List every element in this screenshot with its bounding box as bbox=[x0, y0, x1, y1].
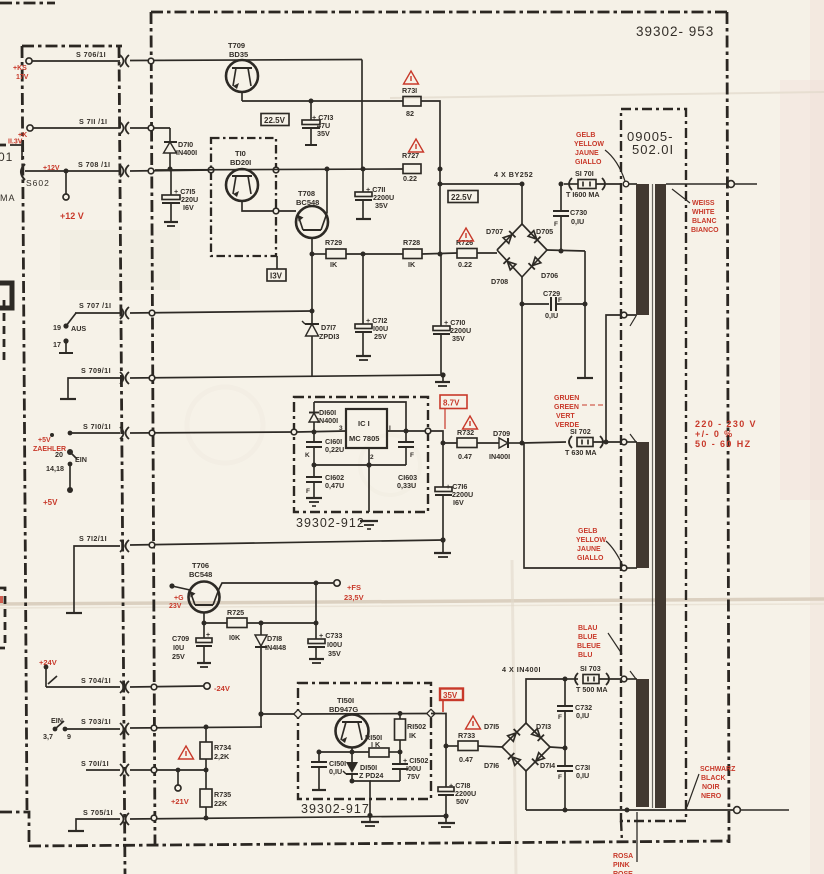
resistor R735 bbox=[200, 770, 231, 818]
capacitor C729 bbox=[522, 289, 585, 320]
svg-text:F: F bbox=[558, 714, 562, 721]
wire S712/11 bbox=[74, 546, 120, 613]
svg-text:3: 3 bbox=[339, 425, 343, 432]
svg-text:502.0I: 502.0I bbox=[632, 142, 674, 157]
capacitor C716 bbox=[435, 443, 473, 540]
svg-text:S 7I0/1I: S 7I0/1I bbox=[83, 422, 111, 431]
svg-text:25V: 25V bbox=[172, 652, 185, 661]
node R734 bottom bbox=[204, 768, 209, 773]
node C729 left bbox=[520, 302, 525, 307]
wire T708 collector bbox=[326, 169, 328, 213]
node ring T10 box right emitter bbox=[273, 208, 279, 214]
svg-text:D7I4: D7I4 bbox=[540, 761, 555, 770]
svg-text:TI50I: TI50I bbox=[337, 696, 354, 705]
connector S704/11 bbox=[120, 681, 129, 693]
svg-text:25V: 25V bbox=[374, 332, 387, 341]
red fragment left edge bbox=[0, 596, 3, 603]
connector S705/11 bbox=[120, 813, 129, 825]
wire primary bottom outside bbox=[740, 809, 789, 811]
svg-text:4 X BY252: 4 X BY252 bbox=[494, 170, 533, 179]
svg-text:GELB: GELB bbox=[578, 528, 597, 535]
node T708 collector rail bbox=[325, 167, 330, 172]
svg-text:I6V: I6V bbox=[453, 498, 464, 507]
svg-text:IK: IK bbox=[330, 260, 338, 269]
wire S707/11 bbox=[75, 312, 120, 314]
svg-text:R733: R733 bbox=[458, 731, 475, 740]
svg-text:D7I8: D7I8 bbox=[267, 634, 282, 643]
ground bar S705 bbox=[68, 830, 84, 832]
wire T709 collector bbox=[361, 60, 363, 170]
voltage box 13V bbox=[267, 256, 286, 281]
regulator box 39302-917 bbox=[298, 683, 431, 799]
wire R733 row bbox=[446, 745, 458, 747]
svg-text:S 708 /1I: S 708 /1I bbox=[78, 160, 110, 169]
wire emitter rail 22.5V bbox=[242, 100, 403, 102]
voltage box 8.7V red bbox=[440, 395, 467, 429]
resistor R728 bbox=[403, 238, 422, 269]
pointer ROSA wire bbox=[636, 812, 638, 862]
svg-text:F: F bbox=[558, 297, 562, 304]
wire 585 vertical bbox=[584, 251, 586, 377]
voltage box 35V red bbox=[440, 689, 463, 713]
svg-text:D7I6: D7I6 bbox=[484, 761, 499, 770]
svg-text:0.22: 0.22 bbox=[403, 174, 417, 183]
contact 14,18 bbox=[68, 462, 73, 467]
wire FS to row bbox=[315, 583, 317, 623]
wire emitter row bbox=[319, 751, 369, 753]
diode D717 zener bbox=[302, 254, 339, 377]
fuse Si703 bbox=[565, 664, 637, 694]
svg-text:I0U: I0U bbox=[173, 643, 184, 652]
switch EIN arm bbox=[70, 452, 77, 459]
warning triangle R726 bbox=[459, 228, 474, 241]
node C731 bottom bbox=[563, 808, 568, 813]
module 39302-953 left border bbox=[151, 12, 155, 845]
node ring Si701 box edge bbox=[623, 181, 629, 187]
wire R725 right bbox=[247, 622, 316, 624]
terminal S711 bbox=[27, 125, 33, 131]
svg-text:BLACK: BLACK bbox=[701, 775, 726, 782]
svg-text:19: 19 bbox=[53, 323, 61, 332]
connector S701/11 bbox=[120, 764, 129, 776]
wire bus 440 down bbox=[439, 169, 441, 254]
svg-text:23V: 23V bbox=[169, 603, 182, 610]
svg-text:BD35: BD35 bbox=[229, 50, 248, 59]
svg-text:F: F bbox=[554, 221, 558, 228]
wire S703/11 bbox=[65, 728, 120, 730]
fuse Si702 bbox=[565, 427, 637, 457]
node C711 rail bbox=[361, 167, 366, 172]
regulator box 39302-912 bbox=[294, 397, 428, 512]
svg-text:EIN: EIN bbox=[75, 455, 87, 464]
switch S704 arm bbox=[45, 667, 47, 687]
pointer GELB top bbox=[605, 150, 625, 181]
node C729 right bbox=[583, 302, 588, 307]
svg-text:0,IU: 0,IU bbox=[545, 311, 558, 320]
svg-text:4 X IN400I: 4 X IN400I bbox=[502, 665, 541, 674]
svg-text:0,22U: 0,22U bbox=[325, 445, 344, 454]
svg-text:+5V: +5V bbox=[38, 437, 51, 444]
diode D718 bbox=[255, 623, 286, 714]
svg-text:3,7: 3,7 bbox=[43, 732, 53, 741]
svg-text:ROSA: ROSA bbox=[613, 853, 633, 860]
wire S701/11 bbox=[86, 769, 120, 771]
svg-text:MA: MA bbox=[0, 193, 16, 203]
node bus row2 bbox=[438, 252, 443, 257]
svg-text:17V: 17V bbox=[16, 74, 29, 81]
node C718 top bbox=[444, 744, 449, 749]
svg-text:S 70I/1I: S 70I/1I bbox=[81, 759, 109, 768]
svg-text:GRUEN: GRUEN bbox=[554, 395, 579, 402]
contact +5V bbox=[50, 433, 54, 437]
ground below rail bbox=[361, 815, 379, 826]
transformer core line bbox=[652, 184, 654, 808]
pointer BLAU bbox=[608, 633, 622, 654]
svg-text:PINK: PINK bbox=[613, 862, 630, 869]
node bridge1 minus bbox=[520, 441, 525, 446]
node S708 junction bbox=[64, 169, 69, 174]
wire gnd rail in box bbox=[314, 464, 406, 466]
ground IC pin2 below box bbox=[360, 521, 378, 529]
svg-text:IN400I: IN400I bbox=[317, 416, 338, 425]
svg-text:BLEUE: BLEUE bbox=[577, 643, 601, 650]
wire stub +12V bbox=[65, 171, 67, 194]
svg-text:D705: D705 bbox=[536, 227, 553, 236]
capacitor C732 bbox=[557, 679, 592, 748]
capacitor C709 bbox=[172, 623, 212, 667]
pointer GELB mid bbox=[606, 541, 623, 566]
node C730 bottom bbox=[559, 249, 564, 254]
ground S712 bbox=[434, 540, 451, 557]
module 39302-953 right border bbox=[727, 12, 729, 843]
svg-text:0,IU: 0,IU bbox=[329, 767, 342, 776]
wire primary top outside bbox=[734, 183, 757, 185]
capacitor C713 bbox=[302, 101, 333, 145]
wire IC pin2 bbox=[368, 448, 370, 512]
node C732 top bbox=[563, 677, 568, 682]
wire T708 emitter bbox=[311, 238, 313, 254]
svg-text:YELLOW: YELLOW bbox=[574, 141, 604, 148]
capacitor C730 bbox=[553, 184, 587, 251]
left module right border bbox=[22, 46, 27, 812]
node gnd C1601 bbox=[312, 463, 317, 468]
node ring S704 border bbox=[151, 684, 157, 690]
svg-text:T I600 MA: T I600 MA bbox=[566, 190, 600, 199]
svg-text:35V: 35V bbox=[317, 129, 330, 138]
svg-text:C730: C730 bbox=[570, 208, 587, 217]
capacitor C1601 bbox=[305, 432, 344, 465]
capacitor C718 bbox=[438, 746, 476, 816]
svg-text:Z PD24: Z PD24 bbox=[359, 771, 383, 780]
arrow winding1 tap bbox=[630, 316, 636, 326]
node ring S709 border bbox=[149, 375, 155, 381]
wire GELB tap to winding bbox=[627, 567, 637, 569]
diode D709 bbox=[489, 429, 522, 461]
terminal +5V bbox=[67, 487, 73, 493]
svg-text:+FS: +FS bbox=[347, 583, 361, 592]
svg-text:SI 703: SI 703 bbox=[580, 664, 601, 673]
svg-text:35V: 35V bbox=[375, 201, 388, 210]
winding primary bbox=[655, 184, 666, 808]
bridge rectifier D713-D716 bbox=[484, 722, 555, 771]
leader 35V red bbox=[442, 700, 444, 712]
warning triangle R732 bbox=[463, 416, 478, 429]
wire S710/11 bbox=[70, 432, 120, 434]
svg-text:0.47: 0.47 bbox=[458, 452, 472, 461]
svg-text:S 7I2/1I: S 7I2/1I bbox=[79, 534, 107, 543]
connector S706/11 bbox=[120, 55, 129, 67]
node ring S706 border bbox=[148, 58, 154, 64]
node R734 top bbox=[204, 725, 209, 730]
svg-text:T706: T706 bbox=[192, 561, 209, 570]
node +21V junction bbox=[176, 768, 181, 773]
svg-text:D7I3: D7I3 bbox=[536, 722, 551, 731]
connector S711/11 bbox=[120, 122, 129, 134]
node C733 top bbox=[314, 621, 319, 626]
svg-text:I6V: I6V bbox=[183, 203, 194, 212]
resistor R729 bbox=[325, 238, 346, 269]
capacitor C710 bbox=[433, 254, 471, 375]
node emitter bbox=[202, 621, 207, 626]
svg-text:2,2K: 2,2K bbox=[214, 752, 230, 761]
wire T1501 emitter bbox=[351, 747, 353, 752]
voltage box 22.5V bbox=[261, 114, 289, 126]
node C1501 row bbox=[317, 750, 322, 755]
svg-text:SI 70I: SI 70I bbox=[575, 169, 594, 178]
svg-text:39302-917: 39302-917 bbox=[301, 802, 370, 816]
svg-text:S 709/1I: S 709/1I bbox=[81, 366, 111, 375]
contact 17 bbox=[63, 338, 68, 343]
diode D1601 bbox=[309, 402, 338, 432]
capacitor C711 bbox=[355, 169, 394, 219]
node T708 emitter bbox=[310, 252, 315, 257]
svg-text:IN400I: IN400I bbox=[176, 148, 197, 157]
svg-text:35V: 35V bbox=[452, 334, 465, 343]
svg-text:IC I: IC I bbox=[358, 419, 370, 428]
svg-text:+5V: +5V bbox=[43, 498, 58, 507]
node S712 end bbox=[440, 537, 445, 542]
connector S703/11 bbox=[120, 723, 129, 735]
pointer WEISS bbox=[672, 189, 690, 203]
svg-text:35V: 35V bbox=[443, 691, 458, 700]
svg-text:D708: D708 bbox=[491, 277, 508, 286]
svg-text:0.22: 0.22 bbox=[458, 260, 472, 269]
wire R726 to bridge bbox=[477, 252, 497, 254]
terminal +21V bbox=[175, 785, 181, 791]
resistor R1501 bbox=[365, 733, 389, 757]
leader 8.7V bbox=[444, 409, 446, 430]
svg-text:T709: T709 bbox=[228, 41, 245, 50]
wire S706/11 bbox=[32, 60, 120, 62]
svg-text:S 704/1I: S 704/1I bbox=[81, 676, 111, 685]
node ring T10 box right rail bbox=[273, 167, 279, 173]
svg-text:S602: S602 bbox=[26, 178, 50, 188]
svg-text:WHITE: WHITE bbox=[692, 209, 715, 216]
wire T706 base bbox=[172, 586, 190, 590]
node ring GELB box edge bbox=[621, 565, 627, 571]
svg-text:R725: R725 bbox=[227, 608, 244, 617]
svg-text:T708: T708 bbox=[298, 189, 315, 198]
node FS junction bbox=[314, 581, 319, 586]
node C713 bbox=[309, 99, 314, 104]
node C712 row bbox=[361, 252, 366, 257]
svg-text:IN400I: IN400I bbox=[489, 452, 510, 461]
node ring S711 border bbox=[148, 125, 154, 131]
pointer GRUEN bbox=[582, 404, 604, 406]
wire R1501 right bbox=[389, 751, 400, 753]
terminal -24V bbox=[204, 683, 210, 689]
wire R725 row bbox=[204, 622, 227, 624]
svg-text:8.7V: 8.7V bbox=[443, 399, 460, 408]
svg-text:+/- 0 %: +/- 0 % bbox=[695, 429, 734, 439]
switch AUS arm bbox=[66, 313, 76, 326]
svg-text:23,5V: 23,5V bbox=[344, 593, 364, 602]
capacitor C712 bbox=[355, 254, 388, 360]
connector column boundary bbox=[119, 46, 125, 874]
svg-text:GIALLO: GIALLO bbox=[575, 159, 602, 166]
wire S711/11 bbox=[33, 127, 120, 129]
svg-text:50V: 50V bbox=[456, 797, 469, 806]
node ring Si702 box edge bbox=[621, 439, 627, 445]
svg-text:GELB: GELB bbox=[576, 132, 595, 139]
svg-text:50 - 60 HZ: 50 - 60 HZ bbox=[695, 439, 752, 449]
wire bottom rail bbox=[526, 809, 733, 811]
svg-text:BD20I: BD20I bbox=[230, 158, 251, 167]
resistor R732 bbox=[457, 428, 477, 461]
svg-text:JAUNE: JAUNE bbox=[577, 546, 601, 553]
svg-text:RI502: RI502 bbox=[407, 722, 426, 731]
svg-text:GREEN: GREEN bbox=[554, 404, 579, 411]
wire base row y254 bbox=[312, 253, 326, 255]
node C716 top bbox=[441, 441, 446, 446]
connector S712/11 bbox=[120, 540, 129, 552]
svg-text:BC548: BC548 bbox=[296, 198, 319, 207]
fuse Si701 bbox=[564, 169, 637, 199]
svg-text:0,33U: 0,33U bbox=[397, 481, 416, 490]
node rail D1501 bbox=[367, 813, 372, 818]
wire R733 to bridge2 bbox=[478, 746, 502, 747]
wire bridge top bbox=[521, 184, 523, 224]
svg-text:AUS: AUS bbox=[71, 324, 86, 333]
transformer box 09005-502.01 bbox=[621, 109, 686, 821]
svg-text:S 705/1I: S 705/1I bbox=[83, 808, 113, 817]
svg-text:JAUNE: JAUNE bbox=[575, 150, 599, 157]
svg-text:35V: 35V bbox=[328, 649, 341, 658]
svg-text:39302- 953: 39302- 953 bbox=[636, 24, 714, 39]
node C731 top bbox=[563, 746, 568, 751]
svg-text:R726: R726 bbox=[456, 238, 473, 247]
resistor R726 bbox=[456, 238, 477, 269]
svg-text:R728: R728 bbox=[403, 238, 420, 247]
svg-text:0,IU: 0,IU bbox=[571, 217, 584, 226]
svg-text:NOIR: NOIR bbox=[702, 784, 720, 791]
svg-text:IK: IK bbox=[409, 731, 417, 740]
node diamond box edge bbox=[294, 710, 302, 718]
wire 184 rail to bridge bbox=[440, 183, 522, 185]
node D717 S707 bbox=[310, 309, 315, 314]
left module bottom corner bbox=[0, 812, 29, 846]
far-left module fragment upper bbox=[3, 300, 6, 360]
node ring S705 border bbox=[151, 815, 157, 821]
svg-text:22.5V: 22.5V bbox=[451, 193, 473, 202]
capacitor C731 bbox=[557, 748, 590, 810]
diode D1501 zener bbox=[343, 752, 383, 781]
svg-text:+G: +G bbox=[174, 595, 184, 602]
module bottom border bbox=[29, 841, 730, 846]
ground S709 C710 bbox=[435, 375, 450, 386]
svg-text:I3V: I3V bbox=[270, 272, 283, 281]
black connector fragment left edge bbox=[0, 283, 12, 308]
connector S707/11 bbox=[120, 307, 129, 319]
resistor R734 bbox=[200, 727, 231, 770]
svg-text:+12 V: +12 V bbox=[60, 211, 84, 221]
wire stub +21V bbox=[177, 770, 179, 785]
wire winding1 bottom tap bbox=[606, 315, 637, 442]
switch S703 contacts bbox=[53, 727, 58, 732]
svg-text:0,IU: 0,IU bbox=[576, 711, 589, 720]
node diamond box right bbox=[427, 709, 435, 717]
svg-text:C709: C709 bbox=[172, 634, 189, 643]
svg-text:39302-912: 39302-912 bbox=[296, 516, 365, 530]
capacitor C1502 bbox=[370, 752, 428, 781]
svg-text:I00U: I00U bbox=[327, 640, 342, 649]
node D710 rail bbox=[168, 167, 173, 172]
contact +24V bbox=[44, 665, 49, 670]
transistor T706 bbox=[189, 561, 220, 613]
svg-text:S 7II /1I: S 7II /1I bbox=[79, 117, 107, 126]
node ring S708 border bbox=[148, 168, 154, 174]
capacitor C1603 bbox=[397, 431, 417, 490]
wire bridge2 right bbox=[550, 747, 565, 748]
connector S602 arc bbox=[21, 164, 25, 180]
svg-text:BLANC: BLANC bbox=[692, 218, 717, 225]
resistor R733 bbox=[458, 731, 478, 764]
wire base to T1501 bbox=[301, 713, 430, 716]
wire T706 collector bbox=[219, 583, 333, 589]
svg-text:IN4I48: IN4I48 bbox=[265, 643, 286, 652]
svg-text:D709: D709 bbox=[493, 429, 510, 438]
wire GELB tap path bbox=[524, 443, 621, 568]
wire T706 emitter bbox=[203, 613, 205, 623]
warning triangle R733 bbox=[466, 716, 481, 729]
ground C718 bbox=[438, 816, 455, 827]
svg-text:22K: 22K bbox=[214, 799, 228, 808]
node ring winding1 bottom box edge bbox=[621, 312, 627, 318]
node IC output bbox=[404, 429, 409, 434]
svg-text:D707: D707 bbox=[486, 227, 503, 236]
resistor R1502 bbox=[395, 714, 427, 753]
wire +12V rail bbox=[155, 169, 403, 170]
wire D1601 bypass top bbox=[314, 402, 406, 431]
node ring S710 border bbox=[149, 430, 155, 436]
svg-text:+12V: +12V bbox=[43, 165, 60, 172]
svg-text:R73I: R73I bbox=[402, 86, 417, 95]
capacitor C715 bbox=[162, 170, 198, 226]
svg-text:-24V: -24V bbox=[214, 684, 230, 693]
svg-text:R734: R734 bbox=[214, 743, 231, 752]
wire S703 corner bbox=[260, 714, 262, 727]
bridge rectifier D705-D708 bbox=[486, 224, 558, 286]
connector S708/11 bbox=[120, 165, 129, 177]
terminal S706 bbox=[26, 58, 32, 64]
switch S703 arm bbox=[55, 721, 64, 729]
node R735 bottom rail bbox=[204, 816, 209, 821]
svg-text:D7I5: D7I5 bbox=[484, 722, 499, 731]
svg-text:17: 17 bbox=[53, 340, 61, 349]
resistor R731 bbox=[402, 86, 421, 118]
node ring S712 border bbox=[149, 542, 155, 548]
wire S704/11 bbox=[46, 686, 120, 688]
